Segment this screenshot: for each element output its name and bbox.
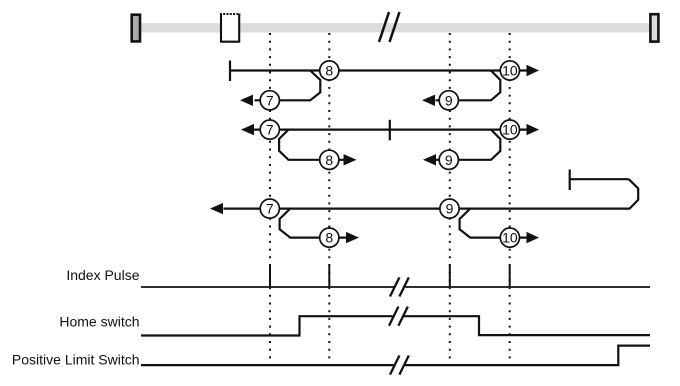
svg-text:8: 8 — [325, 230, 333, 246]
svg-text:9: 9 — [445, 152, 453, 168]
svg-text:8: 8 — [325, 152, 333, 168]
svg-text:10: 10 — [502, 230, 518, 246]
svg-text:Index Pulse: Index Pulse — [66, 267, 139, 283]
svg-text:7: 7 — [266, 122, 274, 138]
svg-text:7: 7 — [266, 201, 274, 217]
svg-text:9: 9 — [446, 201, 454, 217]
svg-text:Positive Limit Switch: Positive Limit Switch — [12, 352, 140, 368]
svg-text:8: 8 — [325, 63, 333, 79]
svg-text:9: 9 — [445, 92, 453, 108]
svg-text:7: 7 — [266, 92, 274, 108]
svg-text:Home switch: Home switch — [59, 314, 139, 330]
svg-text:10: 10 — [502, 122, 518, 138]
svg-text:10: 10 — [502, 63, 518, 79]
